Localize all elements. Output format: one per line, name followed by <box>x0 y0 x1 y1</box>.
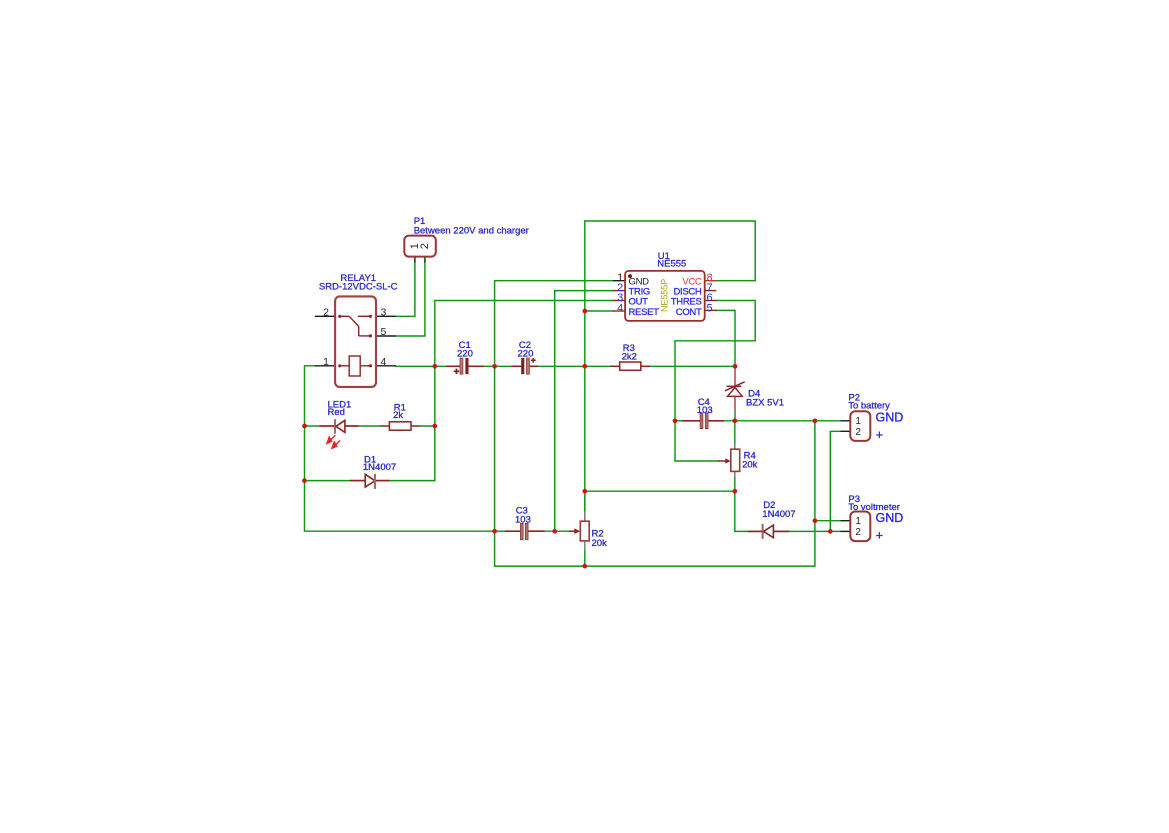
D4 cathode bar with slash <box>727 385 742 387</box>
junction main row / D4 CONT <box>733 364 738 369</box>
wire P2.1 vertical to P3 <box>495 421 815 566</box>
R2 wiper arrow <box>569 530 576 532</box>
junction main row / RESET vertical <box>582 364 587 369</box>
wire C3 left <box>495 530 506 532</box>
resistor R3 body <box>620 362 641 370</box>
capacitor C1 leads <box>446 365 460 367</box>
svg-text:1N4007: 1N4007 <box>762 509 795 520</box>
svg-text:1N4007: 1N4007 <box>363 462 396 473</box>
svg-text:220: 220 <box>518 348 534 359</box>
svg-text:5: 5 <box>707 302 713 314</box>
P2 pin stubs <box>841 420 851 422</box>
U1 pin 2 stub <box>613 290 625 292</box>
wire R2 R4 row <box>585 490 735 492</box>
wire VCC top loop <box>585 221 755 281</box>
wire main row relay pin4 to C1 <box>396 365 447 367</box>
U1 pin 4 stub <box>613 310 625 312</box>
svg-text:2k2: 2k2 <box>622 351 637 362</box>
wire C1 to C2 <box>484 365 512 367</box>
relay pin 1 stub <box>315 365 335 367</box>
wire P2.2 down to D2 row <box>830 431 840 531</box>
LED1 cathode bar <box>334 419 336 434</box>
C1 plus sign <box>454 369 459 374</box>
junction R1 right <box>432 424 437 429</box>
svg-text:2: 2 <box>323 306 329 318</box>
svg-text:20k: 20k <box>742 459 758 470</box>
capacitor C3 leads <box>505 530 521 532</box>
relay pin 3 stub <box>376 315 396 317</box>
U1 pin1 marker dot <box>628 274 632 278</box>
junction C3 right TRIG <box>552 529 557 534</box>
svg-text:NE555: NE555 <box>657 259 686 270</box>
wire C2 to R3 <box>538 365 611 367</box>
wire THRES routing <box>675 301 755 421</box>
U1 pin 7 stub <box>705 290 717 292</box>
svg-text:CONT: CONT <box>676 307 702 318</box>
D1 cathode bar <box>374 474 376 489</box>
svg-text:RESET: RESET <box>629 307 660 318</box>
svg-text:NE555P: NE555P <box>659 279 669 312</box>
P1 pin stubs <box>414 257 416 263</box>
junction main row / GND vertical <box>492 364 497 369</box>
connector P2 body <box>850 411 870 441</box>
resistor R1 body <box>389 422 411 430</box>
wire relay pin1 to left bus <box>305 366 495 531</box>
svg-text:Between 220V and charger: Between 220V and charger <box>414 225 529 236</box>
relay switch lever <box>340 316 371 336</box>
junction D1 row left <box>302 478 307 483</box>
wire R2 top lead <box>584 491 586 512</box>
relay coil <box>349 356 360 376</box>
svg-text:+: + <box>876 528 883 542</box>
svg-text:Red: Red <box>328 407 345 418</box>
wire OUT net vertical <box>435 301 613 481</box>
capacitor C2 plates <box>521 358 524 374</box>
relay pin 2 stub <box>315 315 335 317</box>
junction bottom bus / R2 bottom <box>582 564 587 569</box>
wire P1.1 to relay pin3 <box>396 262 415 316</box>
svg-text:4: 4 <box>617 302 623 314</box>
svg-text:GND: GND <box>876 410 904 424</box>
resistor R3 leads <box>610 365 620 367</box>
D1 leads <box>350 480 365 482</box>
svg-text:4: 4 <box>380 356 386 368</box>
junction D2 row / P2 pin2 branch <box>828 529 833 534</box>
svg-text:1: 1 <box>855 416 861 427</box>
svg-text:2k: 2k <box>393 410 403 421</box>
C2 plus sign <box>531 358 536 363</box>
connector P3 body <box>850 512 870 542</box>
junction RESET pin <box>582 309 587 314</box>
svg-text:GND: GND <box>876 511 904 525</box>
svg-text:1: 1 <box>323 356 329 368</box>
D2 leads <box>748 530 763 532</box>
wire D4 bottom to C4 row <box>734 411 736 421</box>
wire C4 left to R4 wiper <box>675 421 719 461</box>
wire R1 to right vertical <box>420 425 435 427</box>
junction LED row left <box>302 424 307 429</box>
wire R4 bottom to junction <box>734 477 736 491</box>
wire D1 row left <box>305 480 351 482</box>
wire GND net vertical <box>495 281 613 566</box>
LED1 light arrows <box>327 435 340 448</box>
capacitor C1 plates <box>460 358 463 374</box>
D4 leads (light red) <box>734 366 736 386</box>
resistor R1 leads <box>381 425 389 427</box>
wire P3.1 <box>815 520 841 522</box>
relay RELAY1 body <box>335 296 376 387</box>
wire R4 junction down to D2 <box>735 491 748 531</box>
relay coil leads <box>340 365 371 367</box>
svg-text:20k: 20k <box>592 538 608 549</box>
svg-text:3: 3 <box>380 306 386 318</box>
wire C3 right to R2 arrow <box>544 530 570 532</box>
capacitor C2 leads <box>512 365 522 367</box>
junction C4 right / D4 bottom <box>732 418 737 423</box>
wire RESET vertical <box>584 221 586 511</box>
wire LED to R1 <box>359 425 381 427</box>
U1 pin 5 stub <box>705 309 717 311</box>
D1 triangle <box>365 474 375 487</box>
D4 triangle <box>728 388 743 397</box>
svg-text:220: 220 <box>457 348 473 359</box>
wire C4 row <box>675 420 683 422</box>
capacitor C4 plates <box>700 413 703 429</box>
wire R2 bottom to bus <box>584 551 586 566</box>
LED1 leads <box>320 425 335 427</box>
potentiometer R4 body <box>731 449 740 471</box>
junction C4 left <box>673 418 678 423</box>
wire R3 to D4 junction <box>650 365 736 367</box>
junction C3 left <box>492 529 497 534</box>
R2 gray leads <box>584 511 586 521</box>
R4 wiper arrow <box>718 460 727 462</box>
svg-text:103: 103 <box>515 514 531 525</box>
wire R4 top lead <box>734 421 736 444</box>
svg-text:2: 2 <box>419 243 431 249</box>
U1 pin 3 stub <box>613 300 625 302</box>
U1 pin 8 stub (red) <box>705 280 717 282</box>
svg-text:SRD-12VDC-SL-C: SRD-12VDC-SL-C <box>319 282 398 293</box>
wire P1.2 to relay pin5 <box>396 262 425 336</box>
svg-text:2: 2 <box>855 427 861 438</box>
capacitor C4 leads <box>682 420 700 422</box>
R4 gray leads <box>734 444 736 450</box>
potentiometer R2 body <box>580 521 589 541</box>
svg-text:1: 1 <box>855 516 861 527</box>
junction R4 bottom <box>732 489 737 494</box>
svg-text:103: 103 <box>697 405 713 416</box>
D2 triangle <box>764 525 774 538</box>
relay contact dots <box>338 315 372 368</box>
relay pin 4 stub <box>376 365 396 367</box>
relay pin 5 stub <box>376 335 396 337</box>
wire CONT down <box>716 310 735 366</box>
U1 pin 6 stub <box>705 300 717 302</box>
connector P1 body <box>404 236 436 257</box>
U1 pin 1 stub <box>613 280 625 282</box>
D2 cathode bar <box>762 524 764 539</box>
junction P2 pin1 branch <box>813 418 818 423</box>
P3 pin stubs <box>841 520 851 522</box>
op-amp U1 body <box>625 271 705 321</box>
svg-text:5: 5 <box>380 326 386 338</box>
junction P3 pin1 branch <box>813 518 818 523</box>
wire LED row left <box>305 425 320 427</box>
junction main row / OUT vertical <box>432 364 437 369</box>
svg-text:2: 2 <box>855 527 861 538</box>
wire RESET to vertical <box>585 310 613 312</box>
wire D2 to P3.2 <box>789 530 841 532</box>
capacitor C3 plates <box>520 523 523 540</box>
wire TRIG net vertical <box>555 291 613 532</box>
wire D1 right <box>389 480 435 482</box>
LED1 triangle <box>336 420 345 432</box>
svg-text:BZX 5V1: BZX 5V1 <box>746 397 784 408</box>
junction R2 top <box>582 489 587 494</box>
svg-text:+: + <box>876 428 883 442</box>
